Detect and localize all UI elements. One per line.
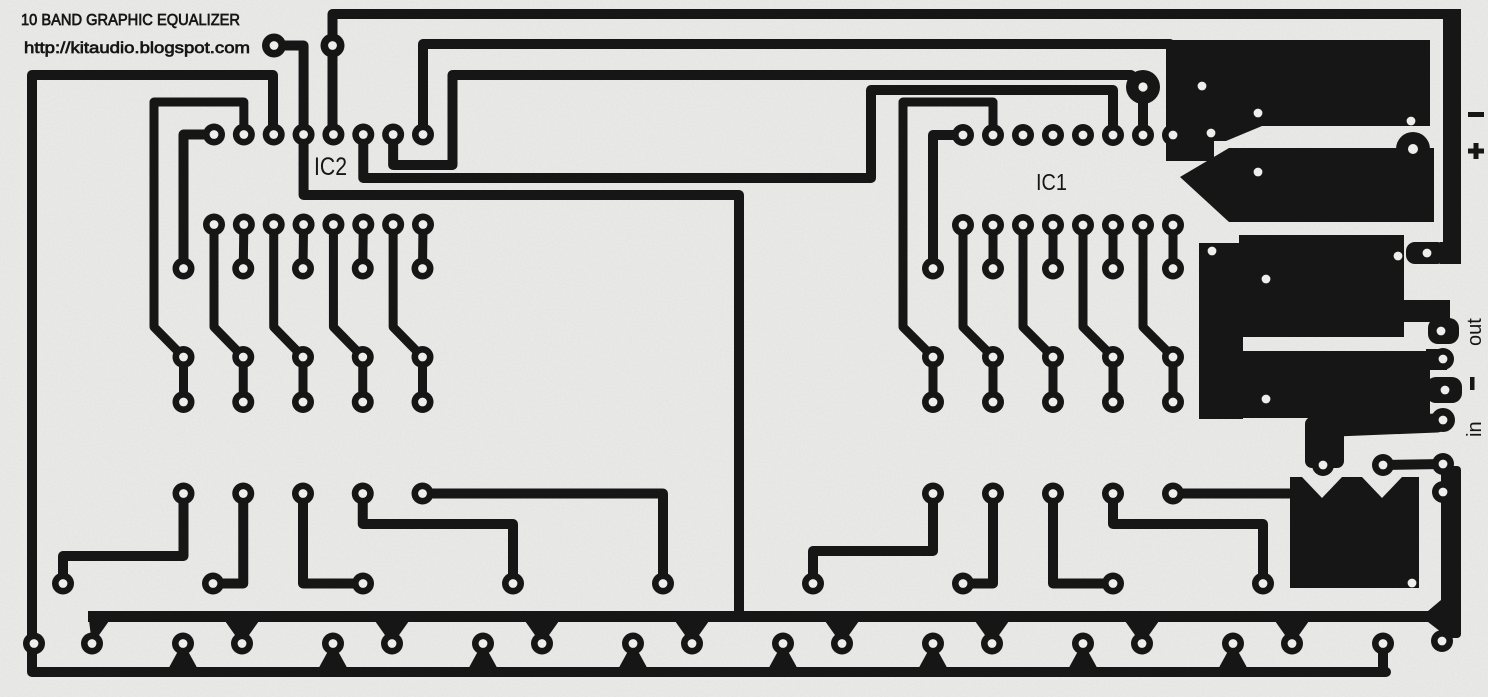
wire top border net from via V2 (332.5,14) to right edge <box>333 14 1453 46</box>
big via V3 pad (1143,87) <box>1126 70 1160 104</box>
label plus <box>1468 149 1484 154</box>
via V2 pad (332.5,45.5) <box>321 34 345 58</box>
wire pad(183.5,493.5) to pad(63,583.5) <box>63 494 184 584</box>
polygon A minus rail pour <box>1166 40 1430 161</box>
wire IC2 bottom col2 short trace to pad (243,268.5) <box>239 225 249 269</box>
wire IC2 bottom col4 short trace to pad (303,268.5) <box>299 225 309 269</box>
border flare triangles to lower pads <box>166 642 1250 673</box>
wire pad(303,493.5) to pad(363,583.5) <box>303 494 363 584</box>
bottom bus bar <box>88 611 1439 622</box>
wire IC1 bottom col8 short trace to pad (1173,268.5) <box>1169 225 1178 269</box>
wire IC1 pin2 long trace to pad (933,357) <box>903 102 993 357</box>
pad (1443,464) <box>1432 453 1454 475</box>
pad in (1443,420) with band to blob <box>1336 423 1437 427</box>
polygon E bottom right pour <box>1290 477 1419 588</box>
right row pads y=268.5 <box>922 258 1184 280</box>
right row pads y=357 <box>922 346 1184 368</box>
bus flare triangles to upper pads <box>88 612 1309 645</box>
left dumbbell wires y=357..402 <box>184 357 423 402</box>
IC2 pads pins 1-8 top row <box>203 124 434 146</box>
wire IC2 bottom col3 long trace to pad (303,357) <box>274 225 303 358</box>
via V1 pad (274,45.5) <box>262 34 286 58</box>
bottom border pads row (down group) <box>172 633 1394 655</box>
wire IC1 bottom col4 short trace to pad (1053,268.5) <box>1049 225 1058 269</box>
left row pads y=357 <box>173 346 434 368</box>
polygon C+D centre-right pour <box>1199 235 1450 419</box>
wire IC1 bottom col2 short trace to pad (993,268.5) <box>989 225 998 269</box>
wire left+bottom border from pad IC2-3 down left side and along bottom <box>32 75 1386 672</box>
IC1 pads pins 1-8 top row <box>952 124 1184 146</box>
wire IC2 pin2 long trace to pad (183.5,357) <box>154 102 244 357</box>
wire IC2 pin1 to pad (183.5,268.5) <box>184 135 215 269</box>
wire IC2 pin6 to IC1 pin6 (z-route) <box>363 90 1113 178</box>
right row pads y=402 <box>922 391 1184 413</box>
border corner pad (34,643.5) <box>23 633 45 655</box>
left row pads y=493.5 <box>173 483 434 505</box>
wire IC1 pin1 to pad (933,268.5) <box>933 135 963 269</box>
label tick <box>1470 377 1475 390</box>
left row pads y=402 <box>173 391 434 413</box>
polygon B plus rail pour <box>1180 148 1434 222</box>
wire pad(422.5,493.5) to pad(663,583.5) <box>423 494 664 584</box>
wire via V2 down to IC2 pin5 <box>328 46 338 135</box>
wire pad(1383,465) to pad(1443,464) <box>1383 464 1443 465</box>
pad gnd (1443,359) <box>1432 348 1454 370</box>
wire big via V3 to IC1 pin7 <box>1138 87 1148 135</box>
wire IC2 bottom col5 long trace to pad (363,357) <box>333 225 362 358</box>
wire pad(933,493.5) to pad(813,583.5) <box>813 494 933 584</box>
pad P- tab (1427,253) <box>1406 242 1446 264</box>
pad out (1441,331) <box>1428 318 1459 344</box>
wire via V1 to IC2 pin4 <box>274 46 304 135</box>
wire IC2 bottom col8 short trace to pad (422,268.5) <box>418 225 427 269</box>
right row pads y=493.5 <box>922 483 1184 505</box>
wire pad(1113,493.5) to pad(1263,583.5) <box>1113 494 1263 584</box>
wire pad(363,493.5) to pad(513,583.5) <box>363 494 513 584</box>
mid pads row y=583.5 <box>52 573 1274 595</box>
wire IC1 bottom col7 long trace to pad (1173,357) <box>1143 225 1173 357</box>
isolated pad tab (1445,390) <box>1426 377 1462 403</box>
wire IC1 bottom col3 long trace to pad (1053,357) <box>1023 225 1053 357</box>
IC2 pads pins 9-16 bottom row <box>203 214 434 236</box>
right power bar top segment <box>1443 9 1461 249</box>
wire IC2 bottom col6 short trace to pad (363,268.5) <box>358 225 368 269</box>
bottom bus pads row (up group) <box>81 633 1303 655</box>
wire IC1 bottom col1 long trace to pad (993,357) <box>963 225 993 357</box>
left row pads y=268.5 <box>173 258 434 280</box>
wire IC1 bottom col5 long trace to pad (1113,357) <box>1083 225 1113 357</box>
wire pad(993,493.5) to pad(963,583.5) <box>963 494 993 584</box>
label minus <box>1468 112 1484 117</box>
wire IC2 pin8 to polygon A <box>423 44 1170 135</box>
wire pad(1173,493.5) into polygon E <box>1173 489 1295 499</box>
wire IC2 pin4 to bottom bus via long vertical x=739 <box>304 135 739 615</box>
pad (1383,465) <box>1372 454 1394 476</box>
pad (1323,465) under blob <box>1312 454 1334 476</box>
IC1 pads pins 9-16 bottom row <box>952 214 1184 236</box>
wire IC2 pin7 U-route to big via V3 <box>393 75 1141 165</box>
wire IC2 bottom col7 long trace to pad (422,357) <box>393 225 422 358</box>
wire IC2 bottom col1 long trace to pad (243,357) <box>214 225 243 358</box>
wire pad(1383,643.5) elbow to border end <box>1372 644 1383 673</box>
wire IC1 bottom col6 short trace to pad (1113,268.5) <box>1109 225 1118 269</box>
right dumbbell wires y=357..402 <box>933 357 1173 402</box>
wire pad(243,493.5) to pad(213,583.5) <box>213 494 243 584</box>
right power bar bottom segment <box>1441 466 1461 638</box>
wire pad(1053,493.5) to pad(1113,583.5) <box>1053 494 1113 584</box>
